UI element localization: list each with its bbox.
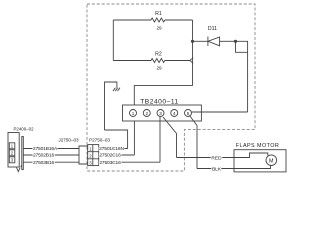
resistor R2 [151,59,165,63]
wire 27501B16A [23,148,79,150]
P2400 pin box 3 [9,157,15,163]
ground branch wire [105,82,117,130]
wire diode cathode [220,40,236,42]
diode D11 [207,37,209,47]
TB pin 3 [157,110,164,117]
connector J2750-03 bracket [79,146,88,164]
P2400 pin box 2 [9,150,15,156]
wire row1 27501C16N [99,148,128,150]
wire row2 27502C16 [99,154,135,156]
P2400 keying mark [17,165,22,171]
wire riser TB pin1 [133,121,135,155]
P2400 mating bracket [22,137,24,170]
P2400 pin box 1 [9,143,15,149]
svg-text:5: 5 [187,111,190,116]
wire node to TB-1 jog [134,86,192,105]
flaps motor box [234,150,286,172]
svg-text:29: 29 [156,66,162,71]
wire right vertical R1 to node [192,20,194,86]
dashed enclosure border [87,4,255,171]
svg-text:J2750–03: J2750–03 [58,138,79,143]
wire ground branch to row1 [105,130,128,149]
wire row3 27503C16 [99,161,160,163]
wire BLK row [197,168,234,170]
svg-text:M: M [269,158,274,164]
svg-text:29: 29 [156,25,162,30]
connector P2400-02 body [8,133,19,168]
svg-text:BLK: BLK [212,166,222,172]
wire left vertical joining R1 R2 [112,20,114,61]
wire RED row [177,157,235,159]
svg-text:1: 1 [132,111,135,116]
svg-text:D11: D11 [208,26,217,32]
node junction dot left of D11 [191,40,194,43]
TB pin 4 [171,110,178,117]
svg-text:P2400–02: P2400–02 [13,126,34,131]
svg-text:4: 4 [173,111,176,116]
TB pin 5 [185,110,192,117]
wire TB pin5 diagonal to BLK [189,115,197,168]
wire R1 top rail right [165,19,193,21]
wire RED inside motor [234,153,268,158]
wire R2 rail left [113,60,151,62]
resistor R1 [151,18,165,22]
TB pin 2 [143,110,150,117]
svg-text:27503B16: 27503B16 [33,160,55,166]
svg-text:3: 3 [159,111,162,116]
wire drop to TB pin 5 [192,111,248,113]
svg-text:FLAPS MOTOR: FLAPS MOTOR [236,143,280,149]
splice arrow at R2 junction [190,58,193,64]
svg-text:27501C16N: 27501C16N [99,146,124,152]
wire R1 top rail left [113,19,151,21]
wire cathode node to right drop [236,41,248,112]
wire BLK inside motor [234,166,271,169]
svg-text:R2: R2 [155,52,162,58]
svg-text:RED: RED [211,155,222,161]
wire loop below cathode node [236,41,248,52]
wire 27502B16 [23,154,79,156]
svg-text:P2750–03: P2750–03 [89,138,110,143]
svg-text:27501B16A: 27501B16A [33,146,58,152]
svg-text:27503C16: 27503C16 [99,160,121,166]
wire riser TB pin3 [159,117,161,163]
TB pin 1 [130,110,137,117]
svg-text:2: 2 [145,111,148,116]
terminal block TB2400-11 [123,105,202,121]
wire diode anode [193,40,208,42]
wire TB pin3 diagonal to RED [163,117,177,158]
node junction dot right of D11 [234,40,237,43]
wire R2 rail right [165,60,190,62]
svg-text:TB2400–11: TB2400–11 [140,98,179,105]
wire 27503B16 [23,161,79,163]
motor M circle [266,155,277,166]
svg-text:27502B16: 27502B16 [33,153,55,159]
chassis ground [113,88,120,91]
svg-text:27502C16: 27502C16 [99,153,121,159]
connector P2750-03 body [88,145,99,166]
svg-text:R1: R1 [155,11,162,17]
